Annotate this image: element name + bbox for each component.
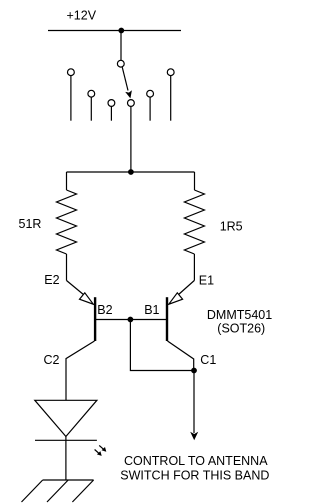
junction dot bases bbox=[127, 317, 133, 323]
LED D1 cathode bar bbox=[35, 439, 97, 441]
wire stub contact 2 bbox=[90, 97, 92, 121]
wire stub contact 5 bbox=[149, 97, 151, 121]
svg-text:DMMT5401: DMMT5401 bbox=[207, 308, 272, 322]
output wire down bbox=[193, 371, 195, 434]
switch contact 2 bbox=[88, 90, 95, 97]
svg-text:51R: 51R bbox=[19, 217, 42, 231]
junction dot C1 bbox=[191, 368, 197, 374]
emitter arrow Q1 bbox=[169, 293, 183, 304]
wire contact 4 down to junction bbox=[130, 106, 132, 172]
svg-text:E2: E2 bbox=[44, 273, 59, 287]
switch contact 1 bbox=[68, 69, 75, 76]
transistor Q1 base bar bbox=[166, 297, 168, 341]
ground hatch 1 bbox=[22, 480, 43, 502]
wire to resistor 1R5 bbox=[194, 172, 196, 190]
svg-text:B1: B1 bbox=[144, 303, 159, 317]
collector wire C2 bbox=[66, 341, 95, 400]
wire resistor 1R5 to emitter bbox=[193, 254, 195, 281]
switch contact 6 bbox=[167, 69, 174, 76]
emitter arrow Q2 bbox=[80, 293, 94, 304]
wire stub contact 3 bbox=[110, 106, 112, 120]
wire emitter E1 diagonal bbox=[178, 281, 194, 296]
wire horizontal feed bbox=[67, 171, 195, 173]
switch contact 5 bbox=[147, 90, 154, 97]
ground hatch 3 bbox=[72, 480, 93, 502]
wire emitter E2 diagonal bbox=[67, 281, 85, 296]
collector wire C1 bbox=[168, 341, 194, 371]
output arrowhead bbox=[190, 432, 198, 441]
wire LED to ground bbox=[65, 437, 67, 481]
resistor 1R5 bbox=[184, 190, 204, 254]
svg-text:E1: E1 bbox=[199, 274, 214, 288]
switch common contact bbox=[117, 60, 124, 67]
wire stub contact 1 bbox=[70, 76, 72, 121]
base wire B1 bbox=[130, 319, 166, 321]
svg-text:(SOT26): (SOT26) bbox=[217, 321, 265, 335]
svg-text:SWITCH FOR THIS BAND: SWITCH FOR THIS BAND bbox=[120, 468, 269, 482]
transistor Q2 base bar bbox=[94, 297, 96, 341]
LED emission arrow 2 bbox=[95, 450, 101, 455]
svg-text:C2: C2 bbox=[44, 353, 60, 367]
svg-text:CONTROL TO ANTENNA: CONTROL TO ANTENNA bbox=[124, 454, 268, 468]
svg-text:C1: C1 bbox=[200, 353, 216, 367]
switch wiper arrow bbox=[122, 67, 128, 91]
junction dot resistor feed bbox=[128, 169, 134, 175]
ground hatch 2 bbox=[47, 480, 68, 502]
svg-text:1R5: 1R5 bbox=[220, 220, 243, 234]
junction dot on +12V rail bbox=[118, 28, 124, 34]
wire +12V rail bbox=[48, 30, 181, 32]
switch contact 3 bbox=[108, 100, 115, 107]
base wire B2 bbox=[96, 319, 130, 321]
LED D1 triangle bbox=[35, 400, 97, 436]
svg-text:B2: B2 bbox=[97, 303, 112, 317]
resistor 51R bbox=[57, 190, 77, 254]
wire resistor 51R to emitter bbox=[66, 254, 68, 281]
wire bases to C1 bbox=[130, 320, 194, 371]
LED emission arrow 1 bbox=[99, 445, 105, 450]
wire to resistor 51R bbox=[66, 172, 68, 190]
svg-text:+12V: +12V bbox=[67, 8, 97, 22]
ground bar bbox=[43, 479, 94, 481]
wire stub contact 6 bbox=[170, 76, 172, 121]
wire rail to switch common bbox=[120, 31, 122, 61]
switch contact 4 (selected) bbox=[127, 100, 134, 107]
